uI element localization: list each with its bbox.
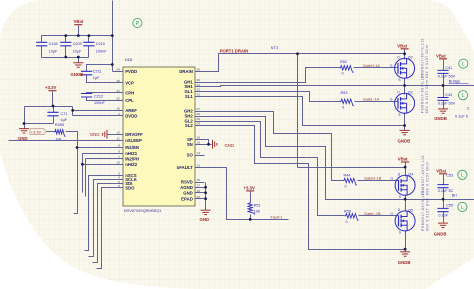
svg-text:SDO: SDO <box>125 185 135 190</box>
svg-text:Fault-1: Fault-1 <box>271 214 283 219</box>
svg-text:IN2/PH: IN2/PH <box>125 156 139 161</box>
svg-text:10: 10 <box>116 161 120 165</box>
svg-text:PSMN017-60YS,115: PSMN017-60YS,115 <box>420 38 424 78</box>
svg-text:13: 13 <box>197 164 201 168</box>
svg-text:L: L <box>461 173 464 179</box>
svg-text:0: 0 <box>345 185 347 189</box>
svg-text:26: 26 <box>197 112 201 116</box>
svg-text:C209: C209 <box>73 42 82 46</box>
svg-text:DRVOFF: DRVOFF <box>125 132 143 137</box>
svg-text:6: 6 <box>118 184 120 188</box>
svg-text:C194: C194 <box>49 42 58 46</box>
svg-text:30: 30 <box>116 79 120 83</box>
svg-text:31: 31 <box>116 89 120 93</box>
svg-text:AGND: AGND <box>180 185 193 190</box>
svg-text:EPAD: EPAD <box>181 196 193 201</box>
svg-text:C210: C210 <box>96 42 105 46</box>
svg-text:60V 0.0157 Ohm: 60V 0.0157 Ohm <box>425 197 429 231</box>
svg-text:R50: R50 <box>344 209 351 213</box>
svg-text:10k: 10k <box>254 210 260 214</box>
svg-text:0: 0 <box>342 72 344 76</box>
svg-text:C211: C211 <box>93 70 102 74</box>
svg-text:29: 29 <box>116 68 120 72</box>
svg-text:60V 0.0157 Ohm: 60V 0.0157 Ohm <box>425 80 429 114</box>
svg-text:PORT1 DRAIN: PORT1 DRAIN <box>220 49 248 54</box>
svg-text:23: 23 <box>197 93 201 97</box>
svg-text:DRV8705SQRHBRQ1: DRV8705SQRHBRQ1 <box>124 209 162 213</box>
svg-text:0.1uF: 0.1uF <box>438 214 448 218</box>
svg-text:GND: GND <box>90 132 100 137</box>
svg-text:GateL-1A: GateL-1A <box>363 97 380 102</box>
svg-text:R53: R53 <box>341 91 348 95</box>
svg-text:100nF: 100nF <box>94 101 105 105</box>
svg-text:Q3: Q3 <box>408 91 413 95</box>
svg-text:0.1uF 50V: 0.1uF 50V <box>438 102 456 106</box>
svg-text:10k: 10k <box>55 137 61 141</box>
svg-text:S: S <box>398 113 400 117</box>
svg-text:L: L <box>461 205 464 211</box>
svg-text:16: 16 <box>116 107 120 111</box>
svg-text:GNDB: GNDB <box>71 72 84 77</box>
svg-text:VBat: VBat <box>398 157 408 162</box>
svg-text:C43: C43 <box>445 93 452 97</box>
svg-text:+3.3V: +3.3V <box>45 85 56 90</box>
svg-text:P: P <box>136 21 140 27</box>
svg-text:0: 0 <box>346 220 348 224</box>
svg-text:C: C <box>467 107 470 111</box>
svg-text:0.1uF 5: 0.1uF 5 <box>455 115 468 119</box>
svg-text:7: 7 <box>118 155 120 159</box>
svg-text:GateL-1B: GateL-1B <box>364 211 381 216</box>
svg-text:22: 22 <box>197 88 201 92</box>
svg-text:Bridge: Bridge <box>449 78 461 83</box>
svg-text:GND: GND <box>183 190 193 195</box>
svg-text:33: 33 <box>197 195 201 199</box>
svg-text:DVDD: DVDD <box>125 113 137 118</box>
svg-text:VBat: VBat <box>436 168 446 173</box>
svg-text:SL2: SL2 <box>185 123 193 128</box>
svg-text:R52: R52 <box>340 60 347 64</box>
svg-text:100nF: 100nF <box>96 49 107 53</box>
svg-text:GNDB: GNDB <box>434 232 447 237</box>
svg-text:Q4: Q4 <box>408 173 413 177</box>
svg-text:18: 18 <box>197 136 201 140</box>
svg-text:10µF: 10µF <box>73 49 82 53</box>
svg-text:12: 12 <box>116 131 120 135</box>
svg-text:NT3: NT3 <box>271 46 278 50</box>
svg-text:R51: R51 <box>254 204 261 208</box>
svg-text:VBat: VBat <box>397 43 407 48</box>
svg-text:19: 19 <box>197 141 201 145</box>
svg-text:nHIZ1: nHIZ1 <box>125 151 138 156</box>
svg-text:17: 17 <box>197 184 201 188</box>
svg-text:25: 25 <box>197 117 201 121</box>
svg-text:20: 20 <box>197 78 201 82</box>
svg-text:1: 1 <box>118 112 120 116</box>
svg-text:S: S <box>399 195 401 199</box>
svg-text:GateH-1B: GateH-1B <box>364 176 382 181</box>
svg-text:8: 8 <box>118 144 120 148</box>
svg-text:+3.3V: +3.3V <box>31 130 42 135</box>
svg-text:60V 0.0157 Ohm: 60V 0.0157 Ohm <box>425 162 429 196</box>
svg-text:GateH-1A: GateH-1A <box>363 63 381 68</box>
svg-text:24: 24 <box>197 122 201 126</box>
svg-text:PSMN017-60YS,115: PSMN017-60YS,115 <box>421 191 425 231</box>
svg-text:C55: C55 <box>446 203 453 207</box>
svg-text:21: 21 <box>197 83 201 87</box>
svg-text:32: 32 <box>116 97 120 101</box>
svg-text:CPH: CPH <box>125 90 134 95</box>
svg-text:16: 16 <box>197 189 201 193</box>
svg-text:SL1: SL1 <box>185 94 193 99</box>
svg-text:C212: C212 <box>94 95 103 99</box>
svg-text:R44: R44 <box>344 173 351 177</box>
svg-text:1µF: 1µF <box>93 76 100 80</box>
svg-text:U15: U15 <box>125 57 133 62</box>
svg-text:VBat: VBat <box>74 19 84 24</box>
svg-text:15: 15 <box>197 178 201 182</box>
svg-text:SO: SO <box>187 153 194 158</box>
svg-text:Q2: Q2 <box>408 56 413 60</box>
svg-text:PVDD: PVDD <box>125 69 137 74</box>
svg-text:+3.3V: +3.3V <box>244 186 255 191</box>
svg-text:Q5: Q5 <box>408 208 413 212</box>
svg-text:nFAULT: nFAULT <box>177 165 194 170</box>
svg-text:9: 9 <box>118 150 120 154</box>
svg-text:GNDB: GNDB <box>434 116 447 121</box>
svg-text:C41: C41 <box>445 66 452 70</box>
svg-text:11: 11 <box>117 136 120 140</box>
svg-text:GNDB: GNDB <box>398 260 411 265</box>
svg-text:14: 14 <box>197 151 201 155</box>
svg-text:27: 27 <box>197 107 201 111</box>
svg-text:PSMN017-60YS,115: PSMN017-60YS,115 <box>420 73 424 113</box>
svg-text:1µF: 1µF <box>61 118 68 122</box>
svg-text:nSLEEP: nSLEEP <box>125 138 142 143</box>
svg-text:Bri: Bri <box>452 193 457 198</box>
svg-text:GNDB: GNDB <box>398 139 411 144</box>
svg-text:AREF: AREF <box>125 108 137 113</box>
svg-text:R259: R259 <box>55 123 64 127</box>
svg-text:28: 28 <box>197 68 201 72</box>
svg-text:C53: C53 <box>446 174 453 178</box>
svg-text:VBat: VBat <box>436 53 446 58</box>
svg-text:S: S <box>399 231 401 235</box>
svg-text:60V 0.0157 Ohm: 60V 0.0157 Ohm <box>425 45 429 79</box>
svg-text:SN: SN <box>187 142 193 147</box>
svg-text:CPL: CPL <box>125 98 134 103</box>
svg-text:10µF: 10µF <box>49 49 58 53</box>
svg-text:PSMN017-60YS,115: PSMN017-60YS,115 <box>421 155 425 195</box>
svg-text:IN1/EN: IN1/EN <box>125 145 139 150</box>
svg-text:GND: GND <box>18 136 28 141</box>
svg-text:DRAIN: DRAIN <box>179 69 193 74</box>
svg-text:L: L <box>462 93 465 99</box>
svg-text:GND: GND <box>225 143 235 148</box>
svg-text:RSVD: RSVD <box>181 180 193 185</box>
svg-text:GND: GND <box>200 217 210 222</box>
svg-text:0: 0 <box>342 106 344 110</box>
svg-text:C71: C71 <box>61 112 68 116</box>
svg-text:L: L <box>462 61 465 67</box>
svg-text:VCP: VCP <box>125 80 134 85</box>
svg-text:S: S <box>398 78 400 82</box>
svg-text:nHIZ2: nHIZ2 <box>125 162 138 167</box>
